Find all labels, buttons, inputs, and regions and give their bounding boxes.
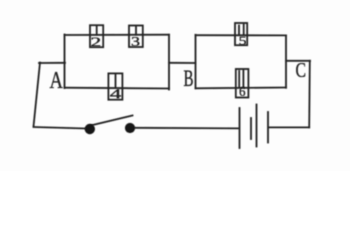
wire left outer vertical: [34, 63, 41, 127]
resistor R5 box: [236, 69, 249, 98]
wire right parallel left junction vertical: [195, 35, 197, 89]
wire top branch B-C: [196, 34, 287, 36]
svg-text:C: C: [296, 58, 307, 82]
svg-text:B: B: [184, 66, 194, 91]
wire right outer vertical: [308, 61, 311, 128]
wire left parallel right junction vertical: [168, 35, 170, 90]
resistor R1 box: [90, 25, 103, 47]
wire bottom right segment: [269, 126, 309, 128]
svg-text:6: 6: [239, 85, 246, 100]
battery cell plate short 2: [267, 112, 269, 143]
switch S1 left terminal dot: [85, 124, 95, 134]
resistor R3 numerator 1: [115, 74, 117, 88]
svg-text:A: A: [50, 68, 64, 94]
wire node B connector: [169, 62, 196, 64]
wire left parallel left junction vertical: [64, 35, 66, 89]
resistor R5 numerator 1: [239, 71, 243, 87]
battery cell plate short 1: [250, 118, 252, 139]
switch S1 lever: [91, 116, 133, 126]
wire node C connector: [286, 60, 310, 62]
wire right parallel right junction vertical: [285, 35, 287, 87]
svg-text:3: 3: [131, 34, 140, 49]
wire top branch A-B: [65, 34, 170, 36]
resistor R1 numerator 1: [96, 26, 98, 35]
svg-text:5: 5: [239, 33, 247, 48]
resistor R4 numerator 1: [239, 25, 244, 36]
wire bottom branch A-B: [65, 87, 170, 90]
resistor R2 numerator 1: [135, 27, 137, 35]
resistor R4 box: [235, 23, 247, 45]
wire bottom middle segment: [135, 127, 238, 130]
wire bottom branch B-C: [196, 87, 287, 90]
svg-text:4: 4: [110, 87, 123, 103]
wire node A stub: [39, 62, 65, 64]
battery cell plate long 2: [256, 105, 258, 147]
svg-text:2: 2: [90, 34, 101, 49]
wire bottom left segment: [34, 127, 86, 129]
resistor R2 box: [129, 26, 143, 48]
resistor R3 box: [108, 73, 122, 99]
battery cell plate long 1: [239, 108, 241, 148]
switch S1 right terminal dot: [125, 123, 135, 133]
